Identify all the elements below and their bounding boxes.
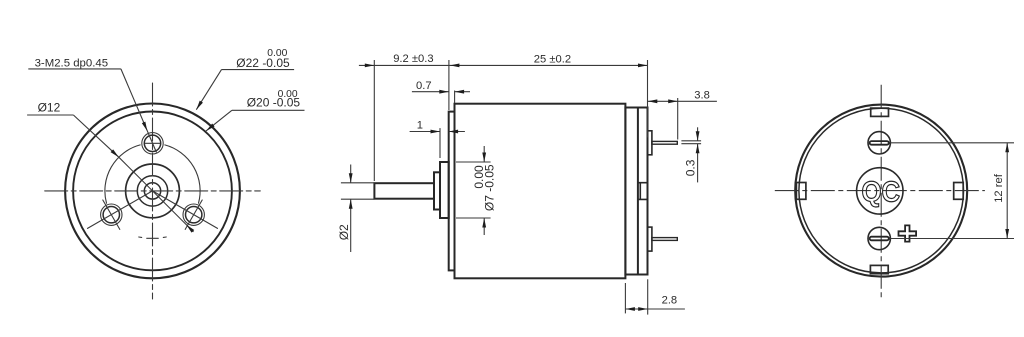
svg-text:2.8: 2.8 [662, 295, 678, 307]
terminal tab top [648, 131, 652, 155]
dimension 2.8 [625, 279, 685, 314]
tab top [871, 108, 889, 116]
svg-text:Ø22 -0.05: Ø22 -0.05 [236, 56, 290, 70]
lower-right hole tangential tick [185, 200, 202, 229]
svg-text:QC: QC [862, 176, 901, 208]
label 3-M2.5 dp0.45 with leader [28, 57, 156, 152]
dimension 9.2 +-0.3 [359, 53, 449, 181]
terminal pin top [652, 141, 677, 144]
terminal pin bottom [652, 238, 677, 241]
label D22 -0.05 with leader [195, 48, 294, 111]
vertical centerline [152, 83, 154, 299]
terminal slot top [870, 141, 889, 145]
mounting hole top (M2.5) [144, 135, 160, 151]
svg-text:Ø12: Ø12 [38, 101, 61, 115]
svg-text:25 ±0.2: 25 ±0.2 [534, 54, 571, 66]
endcap mid bump [638, 183, 648, 200]
D12 diameter dimension line [73, 115, 194, 233]
bolt circle arc right (D12) [165, 145, 200, 203]
inner rim circle rear [799, 108, 964, 273]
shaft [374, 183, 434, 199]
outer case circle D22 [65, 103, 240, 278]
bearing circle [137, 176, 167, 206]
shaft circle D2 [144, 183, 160, 199]
vertical centerline rear [880, 85, 882, 299]
motor body D22 [455, 104, 626, 279]
rear endcap [625, 108, 647, 275]
svg-text:12 ref: 12 ref [993, 173, 1005, 202]
svg-text:Ø2: Ø2 [337, 224, 351, 240]
dimension D2 (rotated) [337, 165, 375, 253]
terminal slot bottom [870, 237, 889, 241]
horizontal centerline rear [775, 190, 985, 192]
inner case circle D20 [73, 111, 232, 270]
tab left [796, 183, 806, 200]
outer case circle rear [795, 105, 967, 277]
terminal circle top [868, 132, 890, 154]
top hole horizontal tick [145, 142, 160, 144]
svg-text:3.8: 3.8 [694, 89, 710, 101]
svg-text:0.3: 0.3 [684, 159, 698, 176]
svg-text:0.00: 0.00 [472, 165, 486, 189]
dimension 0.7 [412, 80, 470, 103]
svg-text:Ø20 -0.05: Ø20 -0.05 [247, 96, 301, 110]
svg-text:3-M2.5 dp0.45: 3-M2.5 dp0.45 [35, 57, 108, 69]
dimension 3.8 [648, 89, 717, 139]
dimension D7 -0.05 (rotated) [456, 146, 496, 235]
endcap internal line [637, 108, 639, 275]
terminal tab bottom [648, 227, 652, 251]
lower-right hole radial centerline [153, 191, 218, 229]
tab right [954, 183, 964, 200]
QC stamp circle [857, 168, 903, 214]
dimension 12 ref (rotated) [890, 143, 1014, 239]
lower-left hole radial centerline [88, 191, 153, 229]
mounting hole lower-right (M2.5) [186, 207, 202, 223]
mounting hole lower-left (M2.5) [103, 207, 119, 223]
shaft step boss1 [434, 172, 440, 209]
svg-text:1: 1 [417, 119, 423, 131]
dimension 1 [410, 119, 465, 158]
plus polarity mark [899, 225, 917, 241]
front plate D20 [449, 112, 455, 271]
label D20 -0.05 with leader [205, 89, 305, 132]
terminal circle bottom [868, 227, 890, 249]
boss circle D7 [126, 164, 180, 218]
dimension 25 +-0.2 [449, 54, 648, 138]
bolt circle arc left (D12) [105, 145, 140, 203]
dimension 0.3 (rotated) [681, 127, 701, 182]
tab bottom [870, 265, 888, 273]
lower-left hole tangential tick [103, 200, 120, 229]
horizontal centerline [45, 190, 261, 192]
label D12 [27, 101, 73, 116]
bolt circle bottom dash-dot [147, 237, 159, 239]
boss D7 [440, 162, 449, 218]
svg-text:0.7: 0.7 [416, 80, 432, 92]
svg-text:9.2 ±0.3: 9.2 ±0.3 [393, 53, 433, 65]
